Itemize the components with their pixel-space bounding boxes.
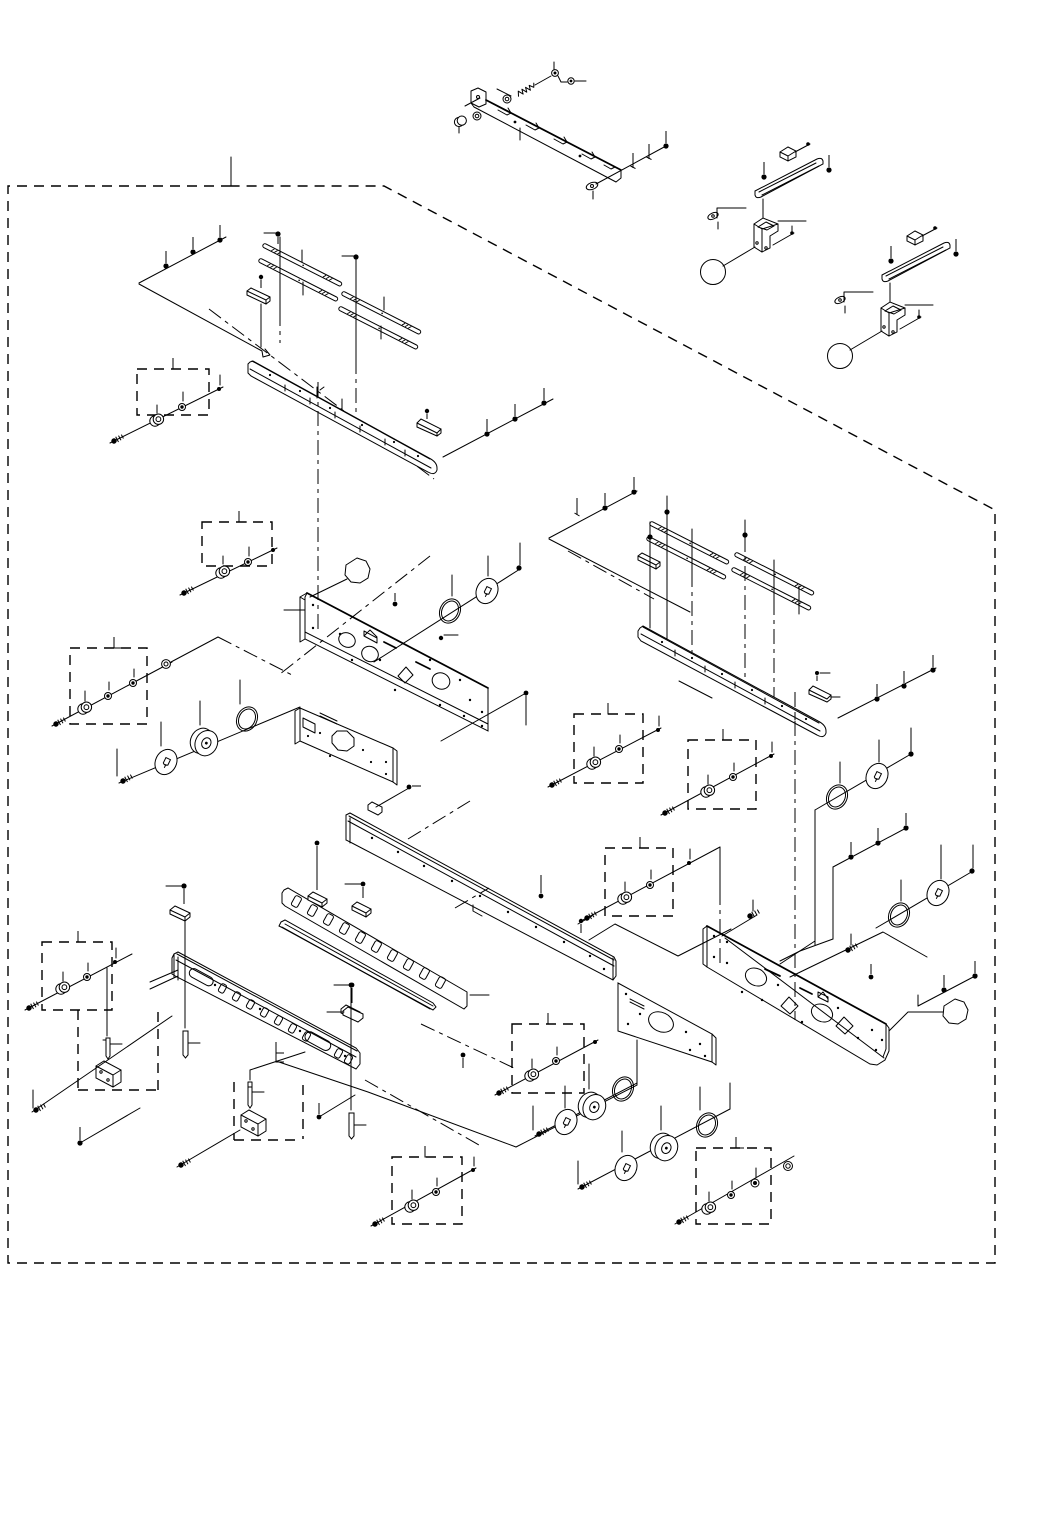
leader: [778, 220, 806, 222]
B1 pin cap: [248, 1082, 252, 1087]
screw head: [663, 131, 668, 149]
link wire: [558, 76, 567, 82]
balloon leader: [723, 247, 755, 266]
panel P2: [300, 708, 393, 782]
lower link oval: [585, 181, 599, 191]
pulley: [646, 1129, 682, 1164]
slide strip R1b: [646, 536, 726, 580]
long vertical through bar6: [350, 987, 352, 1110]
bar4 comb slots: [291, 895, 446, 989]
bracket screw: [773, 233, 794, 245]
switch block B0: [96, 1061, 121, 1087]
bar4 tab screw: [315, 841, 320, 890]
screw axis from bar2 end: [838, 668, 936, 718]
screw row axis: [833, 827, 908, 867]
bar1 bold edge: [252, 361, 430, 459]
route line: [832, 867, 834, 939]
P1 slot tab: [364, 630, 377, 643]
screw above strip2: [342, 255, 354, 257]
leader: [465, 98, 480, 106]
washer: [105, 693, 112, 700]
bar6 rivets: [214, 984, 346, 1057]
washer: [245, 559, 252, 566]
bar3 left face: [346, 815, 350, 843]
screw pair axis right: [918, 975, 977, 1006]
bar3 right face: [612, 958, 614, 980]
ring washer: [822, 781, 851, 812]
center line: [218, 637, 292, 675]
P2 right face: [393, 748, 397, 785]
fastener axis: [583, 847, 720, 920]
slide strip R2a: [734, 552, 814, 596]
border leader tick: [230, 157, 232, 186]
bar1 holes: [269, 374, 271, 376]
center line: [691, 572, 693, 655]
end pin: [471, 1168, 475, 1172]
thread screw on P4: [844, 943, 858, 954]
P3 rivets: [625, 993, 706, 1057]
center line: [279, 311, 281, 343]
screw: [190, 237, 195, 255]
bar6 top clip: [170, 906, 190, 921]
callout box 7: [42, 942, 112, 1010]
balloon leader: [310, 579, 347, 597]
vertical to P3: [636, 1040, 638, 1085]
callout box 4: [574, 714, 643, 783]
chain R1 axis: [815, 754, 911, 810]
chain R2 axis: [876, 871, 973, 928]
bar6 screw top: [181, 883, 186, 904]
slide strip 2b: [338, 306, 418, 350]
screw over strips 3: [742, 532, 747, 537]
P4 slot bar 1: [765, 969, 780, 976]
bushing: [702, 1202, 716, 1214]
screw axis lower right: [596, 146, 666, 184]
screw on P1 face: [393, 593, 398, 606]
screw: [32, 1103, 46, 1114]
bushing: [216, 566, 230, 578]
bar2 bold edge: [643, 627, 819, 723]
long center vertical: [794, 692, 796, 1020]
small nut ring: [162, 660, 171, 669]
bracket face holes: [514, 121, 517, 124]
washer: [179, 404, 186, 411]
screw above mid: [349, 983, 354, 988]
washer: [433, 1189, 440, 1196]
screw: [903, 813, 908, 831]
bar3 screw lower: [579, 919, 583, 933]
screw: [516, 565, 521, 570]
callout balloon right: [943, 999, 968, 1024]
comb rail bar6: [172, 952, 360, 1069]
screw: [874, 684, 879, 702]
bar2 inner edge: [641, 634, 820, 731]
ring washer: [232, 703, 261, 734]
screw: [512, 404, 517, 422]
ring washer: [608, 1073, 637, 1104]
screw: [484, 419, 489, 437]
chain R4 axis: [578, 1109, 730, 1189]
fastener axis box1: [110, 387, 223, 443]
left end leaders: [150, 970, 178, 989]
plate washer: [611, 1152, 641, 1185]
center vertical 2: [814, 941, 816, 945]
bar5 clip: [341, 1005, 360, 1020]
screw: [535, 1127, 549, 1138]
bracket body: [471, 100, 621, 182]
screw: [25, 1001, 39, 1012]
bar4 left tab: [308, 892, 327, 907]
end pin: [687, 861, 691, 865]
end pin: [271, 548, 275, 552]
bar4 right leader: [470, 994, 489, 996]
clip mid: [343, 1007, 363, 1022]
leader tick: [798, 586, 800, 614]
box10 axis: [675, 1156, 794, 1224]
corner tick: [114, 637, 122, 648]
bushing: [150, 414, 164, 426]
washer ring: [503, 95, 511, 103]
clip above bar2 end: [809, 686, 831, 702]
route bend a: [780, 941, 815, 964]
washer: [84, 974, 91, 981]
center line vertical to P1: [317, 382, 319, 630]
main rail bar1: [248, 361, 437, 474]
bar1 ticks: [285, 385, 405, 456]
screw: [930, 655, 935, 673]
fastener axis: [661, 754, 774, 815]
corner tick: [736, 1137, 744, 1148]
plate washer: [862, 760, 892, 793]
screw 2: [77, 1127, 82, 1146]
bar3 screw: [539, 875, 544, 898]
retainer clip on rail: [247, 288, 270, 304]
washer: [553, 1058, 560, 1065]
fastener axis: [180, 548, 277, 595]
screw: [869, 964, 874, 979]
callout balloon P1: [345, 558, 370, 583]
plate washer: [551, 1106, 581, 1139]
P3 slot: [630, 999, 644, 1009]
washer: [130, 680, 137, 687]
bushing: [587, 757, 601, 769]
B0 callout dashes: [78, 1010, 158, 1090]
spring: [516, 83, 536, 96]
P1 lower-right screw axis: [441, 693, 526, 741]
bushing: [405, 1200, 419, 1212]
cap screw: [795, 144, 810, 152]
rail screw right: [826, 155, 831, 173]
B0 pin: [106, 1038, 110, 1059]
P4 diamond 2: [836, 1017, 853, 1034]
center line: [744, 537, 746, 684]
screw: [661, 806, 675, 817]
screw: [908, 751, 913, 756]
bar5 inner lines: [282, 924, 433, 1009]
corner tick: [640, 837, 648, 848]
screw axis top-left: [139, 237, 226, 283]
guide pin left: [183, 1031, 188, 1058]
route vertical: [729, 1083, 731, 1109]
screw: [548, 778, 562, 789]
B1 callout dashes: [234, 1082, 303, 1140]
screw tip: [575, 498, 580, 516]
panel P1: [305, 593, 488, 731]
screw: [119, 774, 133, 785]
washer: [647, 882, 654, 889]
fastener axis: [548, 728, 661, 787]
end pin: [217, 387, 221, 391]
screw right of P1: [439, 636, 443, 640]
P2 big hole: [332, 731, 354, 751]
bar6 bold edge: [177, 954, 357, 1051]
plate washer: [472, 575, 502, 608]
route vertical center: [719, 890, 721, 968]
pulley chain axis: [119, 707, 300, 783]
comb bar4: [282, 888, 467, 1009]
washer: [728, 1192, 735, 1199]
bar3 main rail: [346, 813, 616, 980]
screw: [163, 251, 168, 269]
phantom corner: [679, 681, 712, 698]
corner tick: [78, 931, 86, 942]
P1 hole 2: [359, 644, 381, 665]
screw over strips 2: [664, 509, 669, 514]
P1 slot bar 2: [416, 662, 430, 669]
dark nut: [751, 1179, 759, 1187]
screw: [848, 842, 853, 860]
screw over strips: [647, 534, 652, 539]
retainer clip: [638, 553, 660, 569]
P1 rivet holes: [312, 604, 483, 727]
rail screw: [761, 162, 766, 180]
bushing: [701, 785, 715, 797]
P3 oval hole: [645, 1008, 677, 1036]
leader: [497, 89, 511, 96]
chain R3 axis: [535, 1083, 637, 1136]
screw: [647, 144, 652, 160]
callout box 6: [605, 848, 673, 916]
screw: [875, 828, 880, 846]
hex nut: [454, 116, 466, 127]
balloon leader: [889, 1012, 943, 1031]
callout balloon: [701, 260, 726, 285]
clip screw: [259, 275, 263, 288]
screw: [217, 225, 222, 243]
P1 slot bar: [384, 642, 396, 648]
guide pin right: [349, 1113, 354, 1139]
slide strip R1a: [649, 521, 729, 565]
strip leader ticks: [301, 250, 303, 262]
P4 rivets: [713, 935, 883, 1051]
bar2 holes: [661, 641, 663, 643]
corner tick: [276, 1042, 284, 1053]
screw axis into P4: [722, 915, 757, 936]
clip screw: [815, 671, 819, 681]
route bend b: [780, 939, 833, 961]
P1 left leader: [284, 609, 305, 611]
corner tick: [548, 1013, 556, 1024]
P1 hole 3: [429, 670, 452, 692]
center line diagonal: [209, 309, 434, 479]
chain0 axis: [495, 1040, 598, 1095]
bar3 holes: [371, 837, 605, 970]
center line through P1: [280, 556, 430, 674]
clip plate: [707, 211, 720, 221]
screw: [110, 434, 124, 445]
center line: [762, 199, 764, 219]
B1 leader: [250, 1052, 305, 1080]
P1 bold top edge: [307, 593, 488, 688]
phantom mounting line: [549, 539, 690, 612]
phantom corner: [171, 637, 218, 662]
leader tick: [691, 529, 693, 572]
screw: [371, 1217, 385, 1228]
bar3 bold edge: [349, 816, 614, 960]
nut 2: [568, 78, 574, 84]
screw axis right of bar1: [443, 399, 553, 457]
screw: [495, 1086, 509, 1097]
long leader line left: [279, 237, 281, 311]
screw: [602, 493, 607, 511]
washer chain from P1: [374, 569, 520, 662]
corner tick: [239, 511, 247, 522]
bar6 oval slot right: [303, 1030, 332, 1052]
bar2 ticks: [675, 650, 795, 720]
center line: [773, 600, 775, 700]
bushing: [525, 1069, 539, 1081]
B1 pin: [248, 1087, 252, 1108]
cap block: [780, 147, 796, 161]
border outline: [8, 186, 995, 1263]
center line diagonal A: [421, 1024, 514, 1068]
bar6 comb tabs: [218, 983, 354, 1065]
box8 axis: [371, 1168, 476, 1226]
bushing: [56, 982, 70, 994]
corner tick: [276, 1051, 284, 1062]
P4 hole 1: [742, 965, 769, 990]
end pin: [656, 728, 660, 732]
screw: [969, 868, 974, 873]
ring washer: [884, 899, 913, 930]
plate washer: [923, 877, 953, 910]
washer: [730, 774, 737, 781]
slide strip 1b: [258, 258, 338, 302]
phantom mounting line: [139, 284, 270, 357]
pulley: [574, 1088, 610, 1123]
center line diagonal B: [365, 1080, 479, 1145]
P1 bottom flange line: [305, 632, 488, 724]
bar4 clip mid: [352, 902, 371, 917]
small ring: [784, 1162, 793, 1171]
bar6 left face: [174, 954, 178, 980]
slide strip 2a: [341, 291, 421, 335]
bracket block: [754, 218, 778, 252]
phantom W under P4: [589, 924, 731, 956]
corner tick: [608, 703, 616, 714]
screw: [180, 586, 194, 597]
bracket notches: [498, 108, 615, 169]
callout box 10: [696, 1148, 771, 1224]
chain0 callout box: [512, 1024, 584, 1093]
long leader line mid: [355, 260, 357, 359]
bushing: [618, 892, 632, 904]
phantom chevron: [790, 932, 927, 977]
bar3 notch: [473, 905, 482, 916]
clip center line: [260, 304, 262, 347]
pulley: [186, 724, 222, 759]
callout box 8: [392, 1157, 462, 1224]
B0 vertical leader: [106, 968, 108, 1036]
phantom V bottom: [276, 1061, 637, 1147]
callout box 2: [202, 522, 272, 566]
P4 bold top edge: [707, 926, 886, 1024]
leader tick: [773, 560, 775, 600]
P4 small square: [818, 992, 828, 1002]
P2 slot: [303, 718, 315, 733]
screw right of bar6: [461, 1053, 466, 1068]
nut callout box 1: [137, 369, 209, 415]
center line diagonal: [408, 801, 470, 839]
corner tick: [425, 1146, 433, 1157]
bar6 inner top line: [176, 960, 356, 1057]
clip screw: [350, 983, 355, 1003]
P4 left face: [703, 926, 707, 967]
panel P3: [618, 983, 712, 1062]
corner tick: [173, 358, 181, 369]
panel P4: [707, 926, 889, 1065]
B1 axis: [177, 1130, 240, 1167]
bracket left tab: [471, 88, 486, 107]
slide strip 1a: [262, 243, 342, 287]
screw: [631, 153, 636, 169]
screw above strips: [264, 232, 276, 234]
end pin: [593, 1040, 597, 1044]
route vertical solid: [719, 847, 721, 890]
end pin: [769, 754, 773, 758]
clip screw: [425, 409, 429, 419]
main rail bar2: [638, 626, 826, 737]
washer ring: [473, 112, 481, 120]
end pin: [113, 960, 117, 964]
bushing: [78, 702, 92, 714]
center line diagonal: [568, 551, 654, 599]
bar1 inner edge: [250, 369, 431, 468]
slide strip R2b: [731, 567, 811, 611]
screw: [901, 671, 906, 689]
P2 thin slot: [320, 713, 337, 724]
clip screw axis: [376, 788, 409, 807]
guide rail: [755, 158, 823, 197]
clip on bar1 right: [417, 419, 441, 436]
route line: [814, 810, 816, 941]
callout box 5: [688, 740, 756, 809]
thread screw: [746, 909, 760, 920]
screw: [675, 1215, 689, 1226]
bracket bold top edge: [486, 100, 621, 170]
screw: [177, 1158, 191, 1169]
bar3 clip top: [368, 802, 382, 815]
long diagonal across P4: [725, 938, 884, 1058]
screw small right: [317, 1103, 322, 1119]
center line: [355, 359, 357, 416]
ring washer: [692, 1109, 721, 1140]
clip leader: [717, 208, 746, 218]
P2 rivets: [307, 732, 387, 775]
spring axis: [535, 76, 551, 85]
plate washer: [151, 746, 181, 779]
long leader to pin: [184, 920, 186, 1028]
